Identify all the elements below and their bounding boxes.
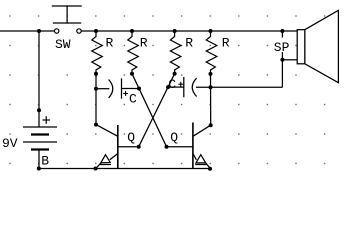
battery BT1 plates: [23, 127, 57, 150]
capacitor C2 right lead: [196, 86, 211, 88]
node R3 top: [173, 29, 177, 33]
capacitor C1 plus sign: [123, 91, 128, 96]
transistor Q1 emitter arrow: [101, 155, 110, 163]
resistor R2: [128, 31, 139, 74]
wire cross coupling diagonal R2 to Q2 base: [132, 74, 167, 147]
wire bottom rail: [39, 168, 210, 170]
svg-text:B: B: [41, 154, 49, 169]
node battery top junction: [37, 29, 41, 33]
node battery bottom junction: [37, 167, 41, 171]
node C2 left junction on diagonal: [166, 85, 170, 89]
grid dots (decorative): [9, 15, 325, 164]
wire Q2 emitter to rail: [206, 163, 211, 168]
speaker SP driver box: [297, 30, 305, 64]
svg-text:R: R: [185, 36, 193, 51]
capacitor C2 curved plate: [192, 78, 196, 96]
switch SW contact circle left: [55, 29, 59, 33]
transistor Q1 emitter line: [110, 154, 118, 160]
battery BT1 plus sign: [43, 116, 51, 124]
wire top rail left segment: [0, 30, 54, 32]
node speaker bottom corner: [280, 58, 284, 62]
node Q2 emitter rail end: [208, 167, 212, 171]
capacitor C2 left lead: [168, 86, 184, 88]
node R1 bottom: [94, 72, 98, 76]
capacitor C1 curved plate: [109, 80, 113, 98]
transistor Q1 collector line: [96, 125, 118, 137]
transistor Q2 emitter arrow: [196, 155, 206, 163]
wire Q1 emitter to rail: [96, 163, 101, 168]
wire speaker bottom lead: [282, 59, 297, 61]
node R2 bottom: [130, 72, 134, 76]
svg-text:9V: 9V: [2, 136, 18, 151]
switch SW actuator bar: [54, 22, 81, 24]
wire speaker return down: [281, 60, 283, 88]
svg-text:R: R: [222, 36, 230, 51]
switch SW contact circle right: [77, 29, 81, 33]
transistor Q2 collector line: [193, 125, 211, 136]
wire cross coupling diagonal R3 to Q1 base: [139, 74, 175, 147]
capacitor C1 straight plate: [121, 78, 123, 98]
node R2 top: [130, 29, 134, 33]
svg-text:R: R: [106, 36, 114, 51]
wire battery positive lead: [38, 31, 40, 127]
wire Q1 emitter arrow underline: [99, 164, 111, 166]
resistor R1: [92, 31, 103, 74]
transistor Q1 base lead: [118, 146, 139, 148]
node Q2 base: [165, 145, 169, 149]
wire collector column Q2: [210, 74, 212, 125]
transistor Q2 emitter line: [193, 154, 197, 160]
node R4 top: [209, 29, 213, 33]
switch SW plunger stem: [66, 6, 68, 23]
node R4 bottom: [209, 72, 213, 76]
switch SW plunger cap: [52, 5, 81, 7]
svg-text:SP: SP: [274, 40, 290, 55]
wire speaker return vertical hidden under SP: [281, 31, 283, 60]
node mid battery lead: [37, 108, 41, 112]
wire battery negative lead: [38, 150, 40, 169]
label SP: [273, 38, 292, 53]
svg-text:C: C: [168, 77, 176, 92]
transistor Q1 base bar: [117, 125, 119, 169]
wire collector column Q1: [95, 74, 97, 125]
node C1 left tee: [94, 87, 98, 91]
transistor Q2 base bar: [192, 123, 194, 169]
svg-text:SW: SW: [55, 37, 71, 52]
wire Q2 emitter arrow underline: [195, 164, 207, 166]
capacitor C1 left lead: [96, 88, 109, 90]
svg-text:Q: Q: [170, 130, 178, 145]
node C1 right junction on diagonal: [137, 87, 141, 91]
wire speaker return horizontal: [211, 86, 283, 88]
wire top rail right segment: [81, 30, 297, 32]
resistor R3: [170, 31, 181, 74]
speaker SP cone: [305, 10, 339, 82]
svg-text:R: R: [140, 36, 148, 51]
node Q1 emitter on rail: [94, 167, 98, 171]
node C2 right tee: [209, 85, 213, 89]
node R1 top: [94, 29, 98, 33]
node Q2 collector: [209, 123, 213, 127]
transistor Q2 base lead: [167, 146, 193, 148]
resistor R4: [206, 31, 217, 74]
capacitor C1 right lead: [122, 88, 140, 90]
capacitor C2 straight plate: [183, 77, 185, 97]
node speaker return on rail: [280, 29, 284, 33]
svg-text:C: C: [129, 92, 137, 107]
capacitor C2 plus sign: [178, 82, 183, 87]
node Q1 base: [137, 145, 141, 149]
node Q1 collector: [94, 123, 98, 127]
node R3 bottom: [173, 72, 177, 76]
svg-text:Q: Q: [127, 130, 135, 145]
